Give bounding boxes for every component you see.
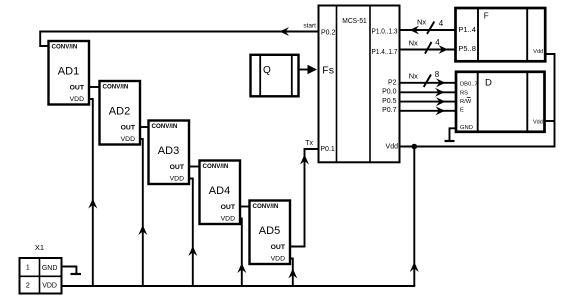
svg-text:P0.7: P0.7 <box>382 107 397 114</box>
bus P2 to D DB0..7 <box>400 75 456 88</box>
microcontroller U1 MCS-51 <box>319 6 400 163</box>
svg-text:CONV/IN: CONV/IN <box>253 203 279 210</box>
svg-text:CONV/IN: CONV/IN <box>152 123 178 130</box>
wire AD4 VDD to supply rail <box>237 219 246 287</box>
wire Vdd net F/D to MCS-51 Vdd <box>400 54 555 147</box>
svg-text:Nx: Nx <box>409 72 418 81</box>
svg-text:P0.1: P0.1 <box>320 146 335 153</box>
svg-text:RS: RS <box>460 90 468 96</box>
oscillator Q <box>251 55 299 97</box>
connector X1 <box>20 258 62 294</box>
wire AD3 OUT to AD4 CONV/IN <box>189 166 200 168</box>
svg-text:Fs: Fs <box>322 65 334 77</box>
wire AD2 VDD to supply rail <box>138 139 147 286</box>
svg-text:P1..4: P1..4 <box>458 25 476 34</box>
svg-text:CONV/IN: CONV/IN <box>203 163 229 170</box>
svg-text:VDD: VDD <box>42 283 57 290</box>
svg-text:Tx: Tx <box>305 140 313 147</box>
svg-text:OUT: OUT <box>271 244 286 251</box>
svg-text:1: 1 <box>26 264 30 271</box>
svg-text:AD2: AD2 <box>109 106 130 118</box>
svg-text:AD5: AD5 <box>259 225 280 237</box>
svg-text:Nx: Nx <box>409 39 418 48</box>
svg-text:P2: P2 <box>388 79 397 86</box>
svg-text:2: 2 <box>26 283 30 290</box>
svg-text:CONV/IN: CONV/IN <box>103 84 129 91</box>
svg-text:MCS-51: MCS-51 <box>342 16 367 25</box>
svg-text:GND: GND <box>42 265 58 272</box>
wire P0.7 to D E <box>400 106 456 115</box>
svg-text:OUT: OUT <box>121 125 136 132</box>
wire Vdd drop to supply rail <box>410 147 419 287</box>
ground symbol for X1 <box>62 267 82 275</box>
svg-text:F: F <box>484 12 489 21</box>
svg-text:AD4: AD4 <box>209 185 230 197</box>
svg-text:VDD: VDD <box>221 216 235 223</box>
svg-text:OUT: OUT <box>221 204 236 211</box>
block AD3 <box>149 121 190 185</box>
svg-text:OUT: OUT <box>70 85 85 92</box>
ground symbol for D <box>445 128 457 141</box>
svg-text:OUT: OUT <box>170 164 185 171</box>
svg-text:VDD: VDD <box>271 256 285 263</box>
block D display <box>456 72 545 132</box>
svg-text:VDD: VDD <box>70 96 84 103</box>
svg-text:start: start <box>303 22 316 29</box>
svg-text:DB0..7: DB0..7 <box>460 82 478 88</box>
svg-text:VDD: VDD <box>170 176 184 183</box>
svg-text:P0.5: P0.5 <box>382 98 397 105</box>
svg-text:P1.0..1.3: P1.0..1.3 <box>372 28 398 35</box>
svg-text:4: 4 <box>435 38 440 47</box>
wire AD5 OUT to P0.1 Tx <box>290 149 319 247</box>
svg-text:4: 4 <box>439 19 444 28</box>
svg-text:CONV/IN: CONV/IN <box>52 44 78 51</box>
junction Vdd node <box>412 144 418 150</box>
wire Q to Fs <box>299 65 317 75</box>
bus P1.0..1.3 to F P1..4 <box>400 22 455 35</box>
svg-text:R/W: R/W <box>460 99 472 105</box>
svg-text:X1: X1 <box>35 243 44 252</box>
svg-text:P5..8: P5..8 <box>458 44 476 53</box>
block F <box>456 8 546 61</box>
wire AD1 OUT to AD2 CONV/IN <box>89 86 100 88</box>
wire AD3 VDD to supply rail <box>188 179 197 287</box>
svg-text:Vdd: Vdd <box>386 143 399 150</box>
wire P0.0 to D RS <box>400 88 456 97</box>
svg-text:GND: GND <box>460 125 473 131</box>
svg-text:Q: Q <box>263 65 271 76</box>
svg-text:Vdd: Vdd <box>533 120 543 126</box>
bus P1.4..1.7 to F P5..8 <box>400 42 455 54</box>
wire AD1 VDD to supply rail <box>88 99 97 286</box>
wire AD4 OUT to AD5 CONV/IN <box>240 206 250 208</box>
wire AD5 VDD to supply rail <box>288 259 297 287</box>
wire P0.5 to D R/W <box>400 97 456 106</box>
block AD2 <box>100 81 141 145</box>
svg-text:P0.2: P0.2 <box>321 30 336 37</box>
block AD5 <box>250 201 291 265</box>
wire AD2 OUT to AD3 CONV/IN <box>140 126 149 128</box>
svg-text:VDD: VDD <box>121 136 135 143</box>
svg-text:E: E <box>460 108 464 114</box>
svg-text:AD3: AD3 <box>158 145 179 157</box>
svg-text:Vdd: Vdd <box>533 49 543 55</box>
wire VDD supply rail <box>62 285 416 287</box>
svg-text:8: 8 <box>435 70 440 79</box>
svg-text:Nx: Nx <box>417 18 426 27</box>
svg-text:D: D <box>485 77 492 88</box>
svg-text:AD1: AD1 <box>58 66 79 78</box>
block AD4 <box>200 161 241 225</box>
svg-text:P0.0: P0.0 <box>382 88 397 95</box>
svg-text:P1.4..1.7: P1.4..1.7 <box>372 49 398 56</box>
wire start net: P0.2 to AD1 CONV/IN <box>40 27 318 46</box>
block AD1 <box>49 41 90 105</box>
